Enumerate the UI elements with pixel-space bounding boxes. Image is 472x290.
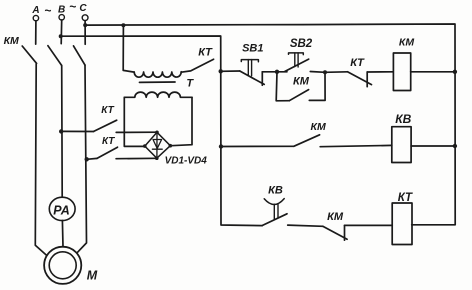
svg-text:РА: РА — [53, 203, 70, 217]
svg-text:КТ: КТ — [398, 192, 413, 204]
svg-text:VD1-VD4: VD1-VD4 — [165, 156, 208, 167]
svg-text:КВ: КВ — [268, 185, 283, 197]
svg-text:Т: Т — [186, 78, 194, 90]
svg-text:КТ: КТ — [350, 57, 365, 69]
svg-text:КМ: КМ — [4, 35, 19, 47]
svg-text:КВ: КВ — [395, 112, 411, 126]
svg-text:КМ: КМ — [327, 211, 344, 223]
svg-text:КМ: КМ — [399, 37, 414, 49]
svg-text:М: М — [87, 269, 98, 283]
svg-text:~: ~ — [44, 3, 51, 17]
svg-text:КТ: КТ — [198, 46, 213, 58]
svg-text:С: С — [79, 3, 87, 14]
svg-text:КТ: КТ — [102, 136, 115, 147]
svg-text:~: ~ — [69, 0, 76, 14]
svg-text:А: А — [31, 5, 39, 16]
svg-text:КМ: КМ — [293, 76, 310, 88]
svg-text:SB1: SB1 — [242, 43, 263, 55]
svg-text:КМ: КМ — [310, 121, 325, 133]
svg-text:SB2: SB2 — [290, 38, 313, 50]
svg-text:КТ: КТ — [101, 105, 114, 116]
svg-text:В: В — [58, 5, 65, 16]
